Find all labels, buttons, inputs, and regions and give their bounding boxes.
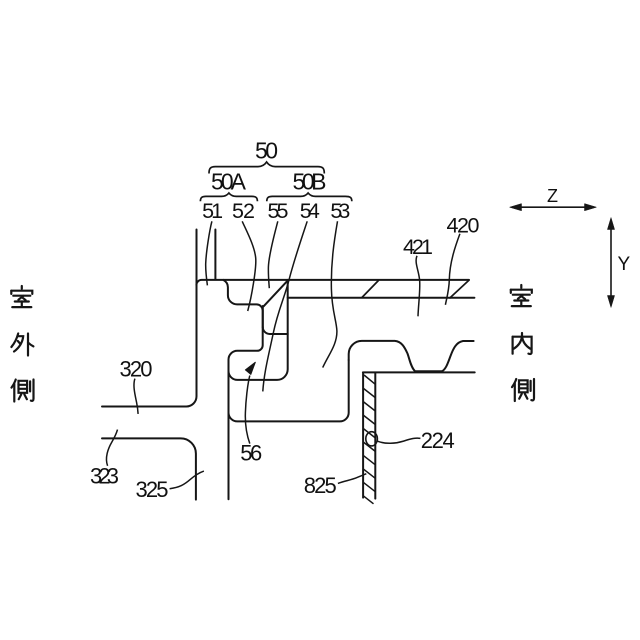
svg-text:825: 825 bbox=[304, 473, 337, 498]
leader lines bbox=[106, 221, 459, 489]
svg-text:56: 56 bbox=[240, 441, 262, 466]
svg-text:325: 325 bbox=[136, 477, 169, 502]
label texts bbox=[211, 138, 327, 195]
gasket left edge bbox=[262, 306, 264, 327]
gasket wedge 55 diagonal bbox=[264, 281, 288, 307]
leader 323 bbox=[106, 430, 117, 466]
sash hollow chamber 56 bbox=[229, 360, 349, 421]
svg-text:420: 420 bbox=[447, 213, 480, 237]
frame outer wall 320 with fin bbox=[102, 230, 197, 407]
screw boss circle 224 bbox=[366, 432, 378, 446]
svg-text:Z: Z bbox=[547, 186, 558, 206]
svg-text:50B: 50B bbox=[293, 169, 327, 195]
svg-text:50: 50 bbox=[255, 138, 278, 164]
hatched plate 825 left edge bbox=[362, 373, 364, 497]
glass bottom line bbox=[288, 297, 475, 299]
leader 53 bbox=[323, 221, 338, 367]
leader 51 bbox=[206, 221, 212, 285]
leader 56 bbox=[245, 376, 249, 444]
leader 55 bbox=[268, 221, 277, 288]
right label: shitsu-nai-soku (indoor side) bbox=[511, 285, 532, 306]
svg-text:50A: 50A bbox=[211, 169, 247, 195]
leader 420 bbox=[445, 234, 460, 305]
svg-text:Y: Y bbox=[617, 254, 630, 275]
interior frame line 323/325 bbox=[102, 438, 196, 499]
sash inner ledge with dip bbox=[349, 341, 474, 371]
glass mid hatch bbox=[362, 280, 379, 298]
leader 52 bbox=[242, 221, 256, 311]
svg-text:421: 421 bbox=[403, 235, 433, 259]
svg-text:51: 51 bbox=[202, 199, 223, 223]
svg-text:54: 54 bbox=[300, 199, 320, 223]
leader 224 bbox=[378, 438, 421, 443]
leader 320 bbox=[134, 379, 138, 414]
left label: shitsu-gai-soku (outdoor side) bbox=[11, 286, 32, 307]
axis arrow Y bbox=[610, 222, 612, 304]
plate hatching bbox=[363, 375, 375, 504]
axis arrow Z bbox=[510, 204, 615, 308]
svg-text:224: 224 bbox=[421, 428, 455, 453]
leader 421 bbox=[416, 256, 420, 316]
gasket wedge bottom bbox=[263, 327, 288, 334]
svg-text:323: 323 bbox=[90, 464, 119, 489]
fin 51 second rib bbox=[214, 230, 216, 280]
arrowhead 56 bbox=[245, 362, 255, 374]
brace 50A bbox=[200, 193, 257, 201]
glass end hatch right bbox=[449, 280, 469, 299]
svg-text:52: 52 bbox=[232, 199, 255, 223]
hatched plate 825 right edge bbox=[374, 373, 376, 498]
indoor frame top line 224 bbox=[363, 371, 475, 373]
leader 325 bbox=[170, 471, 204, 489]
sash top line / glass top 421 bbox=[196, 280, 469, 285]
brace 50B bbox=[267, 193, 352, 201]
svg-text:53: 53 bbox=[330, 199, 350, 223]
brace 50 bbox=[209, 162, 324, 174]
sash step profile 52 bbox=[223, 280, 262, 499]
leader 825 bbox=[338, 474, 366, 484]
svg-text:55: 55 bbox=[268, 199, 289, 223]
glass left cap and sash right wall down to chamber top bbox=[229, 280, 288, 380]
svg-text:320: 320 bbox=[120, 356, 153, 381]
leader 54 bbox=[263, 221, 307, 391]
